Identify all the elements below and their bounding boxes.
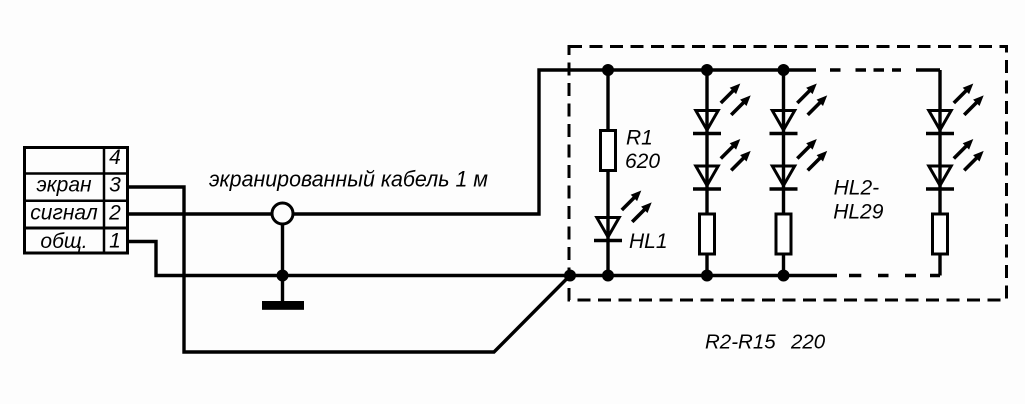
svg-text:4: 4 (109, 146, 121, 169)
svg-text:R1: R1 (626, 127, 653, 150)
svg-text:1: 1 (109, 230, 121, 253)
svg-text:общ.: общ. (40, 230, 87, 253)
svg-text:HL29: HL29 (833, 201, 884, 224)
svg-text:R2-R15: R2-R15 (705, 331, 776, 354)
svg-text:экран: экран (36, 174, 92, 197)
svg-text:экранированный кабель 1 м: экранированный кабель 1 м (209, 167, 488, 192)
svg-text:3: 3 (109, 174, 121, 197)
svg-text:сигнал: сигнал (30, 201, 98, 224)
svg-text:220: 220 (790, 331, 826, 354)
svg-text:HL2-: HL2- (834, 177, 880, 200)
svg-text:2: 2 (108, 201, 121, 224)
svg-text:620: 620 (625, 150, 660, 173)
svg-text:HL1: HL1 (629, 230, 668, 253)
